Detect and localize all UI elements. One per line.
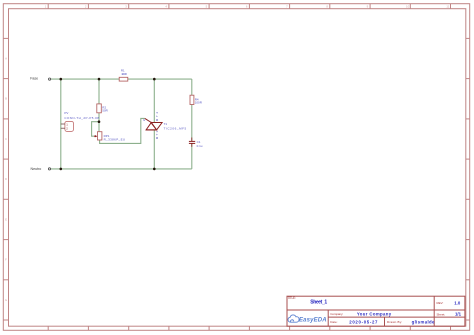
wire: right branch vertical (R4 / C1)	[191, 79, 193, 169]
svg-text:A: A	[5, 57, 7, 61]
svg-text:T1: T1	[164, 122, 168, 126]
svg-text:Your Company: Your Company	[357, 311, 392, 316]
svg-text:10: 10	[406, 5, 410, 9]
wire: triac branch bottom (A1 to bottom rail)	[153, 130, 155, 169]
port Fase	[30, 76, 51, 80]
svg-text:1/1: 1/1	[455, 312, 462, 317]
wire: triac branch top (A2 to top rail)	[153, 79, 155, 122]
svg-text:EasyEDA: EasyEDA	[299, 317, 327, 323]
svg-text:REV:: REV:	[437, 301, 444, 305]
svg-text:Drawn By:: Drawn By:	[387, 320, 402, 324]
junction at Fase/connector branch	[60, 78, 63, 81]
title block	[287, 296, 465, 326]
wire: RP1 bottom to triac gate	[100, 118, 145, 143]
svg-text:C: C	[5, 137, 7, 141]
svg-text:2020-05-27: 2020-05-27	[349, 320, 378, 325]
svg-text:Neutro: Neutro	[31, 167, 42, 171]
wire: R2 branch from top rail to R2	[98, 79, 100, 104]
svg-text:G: G	[143, 118, 145, 122]
svg-text:0.1u: 0.1u	[197, 144, 203, 148]
wire: top rail Fase from port to R1	[51, 78, 119, 80]
wire: R2 bottom to RP1 top through node	[98, 113, 100, 132]
wire: rheostat loop from node to RP1 wiper	[92, 122, 99, 137]
EasyEDA logo	[288, 315, 327, 323]
potentiometer RP1	[94, 132, 125, 142]
svg-text:1.0: 1.0	[454, 300, 461, 305]
junction at top rail / R2 branch	[98, 78, 101, 81]
svg-text:Sheet_1: Sheet_1	[310, 299, 327, 305]
svg-text:TIC206_MF5: TIC206_MF5	[164, 127, 187, 131]
svg-text:TITLE:: TITLE:	[288, 296, 296, 300]
svg-text:Date:: Date:	[330, 320, 337, 324]
capacitor C1	[189, 138, 203, 148]
junction at bottom rail / connector branch	[60, 168, 63, 171]
svg-text:50R: 50R	[102, 109, 108, 113]
svg-text:MT2: MT2	[155, 111, 159, 121]
svg-text:MT1: MT1	[155, 130, 159, 139]
svg-text:Sheet:: Sheet:	[437, 312, 446, 316]
svg-text:CONN-TH_2P-P5.08: CONN-TH_2P-P5.08	[64, 116, 99, 120]
svg-text:R_3386P_EU: R_3386P_EU	[104, 138, 126, 142]
junction node R2/RP1	[98, 120, 101, 123]
svg-text:100R: 100R	[195, 101, 203, 105]
resistor R4	[190, 95, 203, 104]
svg-text:glismalde: glismalde	[412, 319, 435, 324]
svg-text:Fase: Fase	[30, 76, 38, 80]
svg-text:B: B	[5, 97, 7, 101]
svg-text:100R: 100R	[121, 72, 127, 76]
junction at bottom rail / triac branch	[153, 168, 156, 171]
port Neutro	[31, 167, 51, 171]
resistor R2	[97, 104, 109, 113]
connector PV	[61, 111, 99, 131]
svg-text:11: 11	[446, 5, 449, 9]
svg-text:Company:: Company:	[330, 312, 343, 316]
svg-text:F: F	[5, 258, 7, 262]
svg-text:E: E	[5, 217, 7, 221]
svg-text:D: D	[5, 177, 7, 181]
wire: top rail from R1 to right corner	[128, 78, 192, 80]
svg-text:G: G	[5, 298, 7, 302]
wire: bottom rail Neutro	[51, 168, 192, 170]
svg-text:PV: PV	[64, 111, 68, 115]
wire: connector branch vertical	[60, 79, 62, 169]
resistor R1	[119, 69, 128, 82]
triac T1	[143, 111, 187, 139]
junction at top rail / triac branch	[153, 78, 156, 81]
